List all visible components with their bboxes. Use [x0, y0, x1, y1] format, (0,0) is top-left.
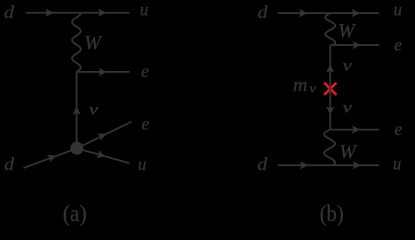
wire upper electron line (b) — [330, 44, 379, 46]
svg-text:(a): (a) — [63, 201, 87, 226]
arrowhead on blob electron line (a) — [97, 134, 106, 141]
svg-text:e: e — [394, 35, 402, 55]
svg-text:d: d — [4, 2, 14, 22]
svg-text:ν: ν — [343, 58, 354, 75]
arrowhead neutrino up (b) — [326, 64, 334, 72]
svg-text:u: u — [393, 153, 402, 173]
svg-text:e: e — [395, 119, 403, 139]
svg-text:d: d — [4, 154, 14, 174]
svg-text:W: W — [84, 32, 103, 54]
effective vertex blob (a) — [70, 142, 83, 155]
svg-text:ν: ν — [89, 101, 100, 118]
svg-text:m: m — [293, 76, 308, 96]
arrowhead neutrino down (b) — [326, 107, 334, 115]
svg-text:u: u — [394, 0, 403, 20]
svg-text:ν: ν — [309, 81, 316, 95]
wire u quark from blob (a) — [77, 148, 129, 163]
arrowhead on blob u line (a) — [96, 150, 105, 158]
svg-text:u: u — [138, 154, 147, 174]
svg-text:u: u — [140, 0, 149, 20]
wire d-u top fermion line (b) — [278, 12, 379, 14]
W boson propagator (a) — [72, 13, 81, 72]
svg-text:ν: ν — [343, 100, 354, 117]
wire neutrino internal line (b) — [329, 45, 331, 130]
arrowhead neutrino pointing up (a) — [73, 107, 81, 115]
wire lower electron line (b) — [330, 129, 379, 131]
arrowhead on bottom d segment (b) — [300, 161, 308, 169]
upper W boson propagator (b) — [325, 13, 335, 45]
svg-text:W: W — [339, 141, 358, 163]
svg-text:(b): (b) — [320, 201, 344, 226]
arrowhead on lower electron line (b) — [352, 126, 360, 134]
wire d-u bottom fermion line (b) — [278, 164, 379, 166]
mass insertion cross (red X) — [325, 84, 335, 94]
arrowhead on top d segment (b) — [299, 9, 307, 17]
arrowhead on top u segment (b) — [352, 9, 360, 17]
lower W boson propagator (b) — [324, 130, 335, 166]
wire electron line (a) — [77, 71, 130, 73]
wire d-u top fermion line (a) — [26, 12, 130, 14]
arrowhead on d segment (a) — [46, 9, 54, 17]
svg-text:W: W — [338, 20, 357, 42]
svg-text:d: d — [257, 154, 267, 174]
svg-text:e: e — [142, 113, 150, 133]
svg-text:d: d — [258, 2, 268, 22]
wire electron from blob (a) — [77, 122, 132, 149]
arrowhead on u segment (a) — [98, 9, 106, 17]
arrowhead on lower d line (a) — [47, 155, 56, 163]
arrowhead on electron line (a) — [99, 68, 107, 76]
arrowhead on upper electron line (b) — [353, 41, 361, 49]
wire d quark into blob (a) — [24, 148, 77, 168]
wire neutrino internal line (a) — [76, 72, 78, 145]
svg-text:e: e — [141, 61, 149, 81]
arrowhead on bottom u segment (b) — [353, 161, 361, 169]
